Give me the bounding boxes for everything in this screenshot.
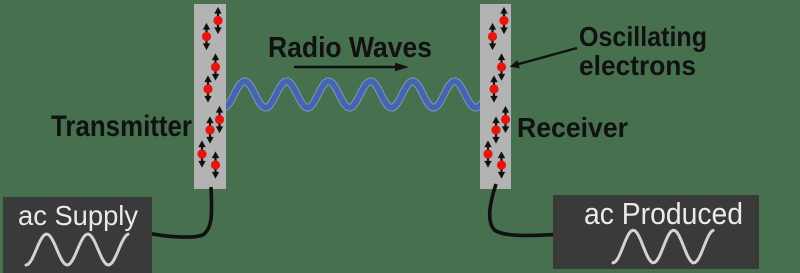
svg-text:Receiver: Receiver: [517, 112, 628, 143]
svg-text:ac Supply: ac Supply: [18, 200, 138, 231]
svg-text:Oscillating: Oscillating: [579, 21, 707, 52]
svg-text:Radio Waves: Radio Waves: [268, 32, 432, 64]
svg-text:ac Produced: ac Produced: [584, 196, 743, 231]
svg-text:electrons: electrons: [579, 50, 696, 81]
svg-text:Transmitter: Transmitter: [51, 110, 192, 143]
